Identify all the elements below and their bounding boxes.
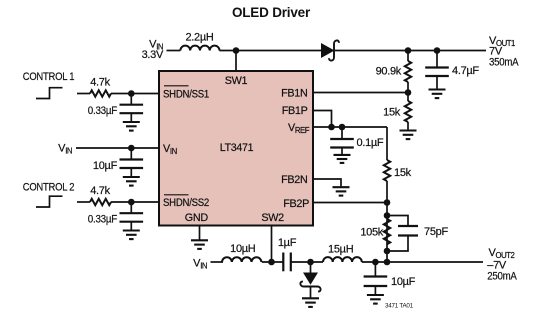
capacitor C5 0.1uF [330, 127, 384, 155]
svg-text:CONTROL 1: CONTROL 1 [23, 71, 75, 83]
node VREF cap junction [339, 124, 346, 131]
svg-text:3.3V: 3.3V [142, 49, 164, 61]
ground under R2 [400, 131, 417, 140]
svg-text:FB2N: FB2N [281, 174, 307, 186]
node VIN 3.3V label [142, 39, 164, 62]
capacitor C4 0.33uF [88, 202, 143, 231]
wire D1 to VOUT1 [335, 50, 486, 52]
node FB1P/VREF junction [328, 124, 335, 131]
capacitor C6 75pF [387, 216, 448, 252]
svg-text:10µH: 10µH [230, 243, 256, 255]
capacitor C7 1uF series [278, 237, 297, 271]
resistor R3 4.7k [90, 77, 111, 97]
IC U1 LT3471 body [159, 71, 313, 226]
svg-text:FB2P: FB2P [283, 198, 309, 210]
svg-text:GND: GND [185, 212, 209, 224]
svg-text:0.33µF: 0.33µF [88, 214, 118, 226]
svg-text:350mA: 350mA [489, 57, 519, 69]
wire R4 to pin SHDN/SS2 [111, 201, 159, 203]
ground under D2 [302, 298, 319, 307]
node VOUT1 label [489, 35, 519, 69]
svg-text:4.7k: 4.7k [90, 77, 110, 89]
resistor R1 90.9k [376, 51, 412, 93]
node SS1 junction [128, 90, 135, 97]
node FB2P junction [384, 199, 391, 206]
ground under C3 [123, 177, 140, 186]
node SS2 junction [128, 199, 135, 206]
svg-text:SHDN/SS1: SHDN/SS1 [163, 88, 209, 100]
wire L2 to SW2 node [262, 261, 283, 263]
resistor R2 15k [383, 93, 411, 131]
wire VIN to L1 [167, 50, 181, 52]
svg-text:FB1P: FB1P [282, 105, 308, 117]
svg-text:105k: 105k [360, 227, 383, 239]
wire FB1N to divider [313, 92, 408, 94]
node FB1N junction [405, 89, 412, 96]
wire FB1P [313, 111, 332, 128]
svg-text:LT3471: LT3471 [220, 142, 254, 154]
pin GND wire [199, 226, 201, 241]
wire FB2P down [386, 203, 388, 263]
diode D1 schottky [322, 40, 339, 60]
node junction at R1 top [405, 47, 412, 54]
ground under C8 [367, 295, 384, 304]
wire C7 to D2 node [291, 261, 323, 263]
wire FB2N [313, 179, 341, 187]
capacitor C3 10uF [93, 148, 143, 177]
node SW1 junction [233, 47, 240, 54]
svg-text:FB1N: FB1N [281, 87, 307, 99]
node junction at C1 top [434, 47, 441, 54]
svg-text:OLED Driver: OLED Driver [232, 5, 311, 20]
svg-text:75pF: 75pF [424, 226, 448, 238]
wire R3 to pin SHDN/SS1 [111, 93, 159, 95]
node divider top junction [384, 212, 391, 219]
wire SW1 junction down to pin SW1 [235, 51, 237, 72]
step symbol control 1 [36, 88, 63, 99]
ground under C5 [334, 155, 351, 163]
svg-text:4.7µF: 4.7µF [452, 65, 479, 77]
svg-text:15k: 15k [383, 107, 401, 119]
svg-text:10µF: 10µF [391, 276, 416, 288]
svg-text:4.7k: 4.7k [90, 185, 110, 197]
ground under C1 [429, 90, 446, 99]
wire FB2P [313, 202, 387, 204]
node VOUT2 label [487, 247, 517, 282]
svg-text:SW2: SW2 [261, 212, 284, 224]
svg-text:2.2µH: 2.2µH [185, 32, 213, 44]
wire L1 to D1 [219, 50, 322, 52]
node divider rail junction [384, 259, 391, 266]
ground at GND pin [191, 240, 208, 249]
resistor R5 15k (VREF to FB2P) [384, 127, 412, 203]
node divider bottom junction [384, 248, 391, 255]
capacitor C8 10uF [364, 262, 416, 295]
inductor L2 10uH [222, 243, 261, 262]
svg-text:1µF: 1µF [278, 237, 297, 249]
svg-text:10µF: 10µF [93, 160, 118, 172]
svg-text:3471 TA01: 3471 TA01 [385, 303, 414, 310]
wire VIN to L2 [211, 261, 224, 263]
inductor L3 15uH [323, 244, 362, 263]
svg-text:90.9k: 90.9k [376, 66, 402, 78]
pin SW2 wire [271, 226, 273, 263]
capacitor C1 4.7uF [425, 51, 479, 90]
node SW2 junction [268, 259, 275, 266]
svg-text:CONTROL 2: CONTROL 2 [23, 182, 75, 194]
resistor R6 105k [360, 219, 390, 244]
wire VREF [313, 126, 387, 128]
node D2 junction [307, 259, 314, 266]
node VIN junction [128, 145, 135, 152]
diode D2 schottky down [300, 262, 320, 298]
ground under C2 [123, 122, 140, 131]
wire VIN to pin [76, 147, 159, 149]
svg-text:0.33µF: 0.33µF [88, 105, 118, 117]
svg-text:0.1µF: 0.1µF [357, 137, 384, 149]
wire control1 to R3 [77, 93, 90, 95]
svg-text:15µH: 15µH [328, 244, 354, 256]
step symbol control 2 [36, 196, 63, 207]
inductor L1 2.2uH [180, 32, 219, 51]
svg-text:SW1: SW1 [225, 75, 248, 87]
wire control2 to R4 [77, 201, 90, 203]
ground at FB2N [333, 187, 350, 195]
ground under C4 [123, 231, 140, 240]
svg-text:SHDN/SS2: SHDN/SS2 [163, 197, 209, 209]
svg-text:250mA: 250mA [487, 270, 517, 282]
node C8 junction [372, 259, 379, 266]
capacitor C2 0.33uF [88, 94, 143, 123]
resistor R4 4.7k [90, 185, 111, 205]
wire L3 to VOUT2 [362, 261, 483, 263]
svg-text:15k: 15k [394, 167, 412, 179]
